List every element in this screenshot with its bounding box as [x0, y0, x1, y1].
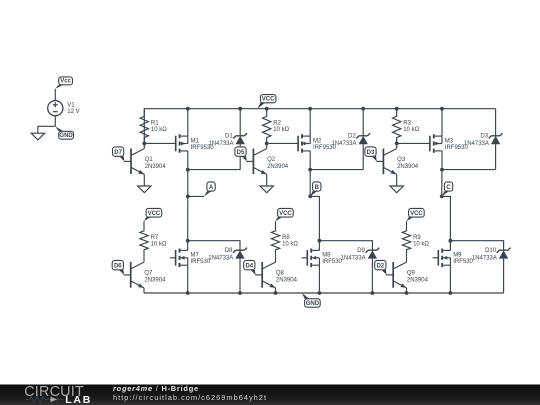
svg-text:12 V: 12 V — [67, 109, 79, 115]
wire M2 drain to D2 anode — [310, 169, 363, 171]
svg-text:M1: M1 — [191, 138, 200, 144]
svg-text:Vcc: Vcc — [60, 79, 71, 85]
power flag Vcc (V1) — [55, 77, 72, 89]
resistor R1 10 k — [140, 109, 167, 144]
wire M8 drain — [318, 241, 320, 251]
svg-text:B: B — [315, 185, 320, 191]
svg-text:R3: R3 — [403, 121, 411, 127]
svg-text:R1: R1 — [151, 121, 159, 127]
mosfet M8 IRF530 — [307, 249, 342, 268]
svg-text:D3: D3 — [480, 133, 488, 139]
svg-text:Q3: Q3 — [397, 157, 406, 163]
svg-text:10 kΩ: 10 kΩ — [413, 242, 429, 248]
node M2 drain junction — [308, 168, 312, 172]
svg-text:Q9: Q9 — [407, 270, 416, 276]
footer title text — [113, 384, 267, 402]
node rail-M2 — [308, 107, 312, 111]
wire M8 gate stub — [302, 257, 308, 259]
wire VCC top rail — [144, 109, 495, 144]
mosfet M7 IRF530 — [176, 249, 211, 268]
mosfet M9 IRF530 — [438, 249, 473, 268]
wire M9 source to rail — [449, 265, 451, 293]
node M8 drain junction — [318, 239, 322, 243]
node rail-Q9 — [405, 291, 409, 295]
transistor Q3 2N3904 — [376, 143, 418, 174]
node C — [442, 182, 453, 197]
transistor Q9 2N3904 — [386, 257, 428, 288]
node rail-M8 — [318, 291, 322, 295]
wire M7 gate stub — [170, 257, 176, 259]
node D4 — [244, 260, 256, 275]
zener diode D10 1N4733A — [472, 248, 511, 262]
node M9 drain junction — [449, 239, 453, 243]
node R2/Q2/M2 gate — [265, 142, 269, 146]
wire D3 anode — [495, 144, 497, 169]
ground (Q1) — [138, 186, 151, 193]
svg-text:10 kΩ: 10 kΩ — [273, 127, 289, 133]
wire M9 gate stub — [433, 257, 439, 259]
svg-text:Q8: Q8 — [276, 270, 285, 276]
node rail-M9 — [449, 291, 453, 295]
node D6 — [112, 260, 124, 275]
power flag VCC (R9) — [407, 208, 425, 221]
wire M1 drain to D1 anode — [188, 169, 240, 171]
node rail-M3 — [440, 107, 444, 111]
svg-text:D1: D1 — [225, 133, 233, 139]
svg-text:R9: R9 — [413, 235, 421, 241]
wire M2 drain down — [309, 151, 311, 170]
svg-text:D7: D7 — [114, 150, 122, 156]
wire V1 minus to GND node — [54, 116, 56, 127]
svg-text:1N4733A: 1N4733A — [472, 256, 497, 262]
transistor Q7 2N3904 — [124, 257, 166, 288]
wire gate M3 — [397, 142, 430, 144]
transistor Q2 2N3904 — [246, 143, 288, 174]
svg-text:M8: M8 — [322, 253, 331, 259]
power flag GND (V1) — [55, 126, 73, 139]
power flag VCC (R7) — [144, 208, 162, 221]
svg-text:http://circuitlab.com/c6269mb6: http://circuitlab.com/c6269mb64yh2t — [113, 393, 267, 402]
svg-text:D4: D4 — [245, 264, 253, 270]
svg-text:10 kΩ: 10 kΩ — [151, 242, 167, 248]
svg-text:IRF530: IRF530 — [322, 259, 342, 265]
svg-text:VCC: VCC — [262, 97, 275, 103]
svg-text:D8: D8 — [225, 248, 233, 254]
node B junction — [308, 195, 312, 199]
node rail-D9 — [371, 291, 375, 295]
node A — [204, 182, 215, 197]
wire M7 source to rail — [187, 265, 189, 293]
node rail-M7 — [186, 291, 190, 295]
svg-text:10 kΩ: 10 kΩ — [282, 242, 298, 248]
svg-text:A: A — [209, 185, 214, 191]
resistor R7 10 k — [140, 221, 167, 257]
node D3 — [365, 147, 377, 162]
zener diode D3 1N4733A — [464, 133, 503, 147]
node rail-D1 — [238, 107, 242, 111]
node rail-D2 — [361, 107, 365, 111]
svg-text:R8: R8 — [282, 235, 290, 241]
mosfet M2 IRF9530 — [298, 134, 337, 153]
wire D1 cathode — [239, 109, 241, 136]
svg-text:GND: GND — [59, 133, 73, 139]
node M7 drain junction — [186, 239, 190, 243]
wire D2 anode — [362, 144, 364, 169]
wire D8 anode — [239, 259, 241, 293]
wire M8 source to rail — [318, 265, 320, 293]
wire M7 drain — [187, 241, 189, 251]
svg-text:M3: M3 — [445, 138, 454, 144]
wire Q2 emitter to ground — [266, 174, 268, 186]
wire D8 cathode wire — [188, 241, 240, 251]
wire M3 drain to node C — [441, 170, 443, 197]
resistor R3 10 k — [393, 109, 420, 144]
wire D3 cathode — [495, 109, 497, 136]
node rail-R2 — [265, 107, 269, 111]
wire node B to M8 drain — [310, 196, 319, 240]
node A junction — [186, 195, 190, 199]
wire D9 anode — [371, 259, 373, 293]
zener diode D9 1N4733A — [341, 248, 380, 262]
svg-text:VCC: VCC — [279, 211, 292, 217]
wire Q1 emitter to ground — [143, 174, 145, 186]
svg-text:M9: M9 — [453, 253, 462, 259]
svg-text:2N3904: 2N3904 — [397, 164, 419, 170]
svg-text:V1: V1 — [67, 103, 75, 109]
transistor Q1 2N3904 — [124, 143, 166, 174]
ground (V1) — [31, 133, 44, 140]
wire M1 drain down — [187, 151, 189, 170]
wire M2 drain to node B — [309, 170, 311, 197]
mosfet M1 IRF9530 — [176, 134, 215, 153]
wire D10 cathode wire — [450, 241, 503, 251]
power flag VCC (R8) — [276, 208, 294, 221]
node M1 drain junction — [186, 168, 190, 172]
wire rail to M2 source — [309, 109, 311, 136]
svg-text:D6: D6 — [114, 264, 122, 270]
svg-text:R7: R7 — [151, 235, 159, 241]
svg-text:LAB: LAB — [65, 394, 92, 405]
svg-text:VCC: VCC — [148, 211, 161, 217]
wire M1 drain to node A — [187, 170, 189, 197]
ground (Q3) — [390, 186, 403, 193]
node M3 drain junction — [440, 168, 444, 172]
wire D10 anode — [503, 259, 505, 293]
svg-text:R2: R2 — [273, 121, 281, 127]
wire Q3 emitter to ground — [396, 174, 398, 186]
wire node A to M7 drain — [187, 196, 189, 240]
wire M3 drain to D3 anode — [442, 169, 496, 171]
node D2 — [375, 260, 387, 275]
wire rail to M1 source — [187, 109, 189, 136]
svg-text:IRF530: IRF530 — [453, 259, 473, 265]
voltage source V1 12 V — [48, 101, 80, 116]
svg-text:D10: D10 — [485, 248, 497, 254]
svg-text:Q7: Q7 — [144, 270, 153, 276]
svg-text:M7: M7 — [191, 253, 200, 259]
svg-text:1N4733A: 1N4733A — [464, 141, 489, 147]
wire Q8 emitter to rail — [275, 288, 277, 293]
svg-text:D3: D3 — [367, 150, 375, 156]
node D7 — [113, 147, 125, 162]
wire D2 cathode — [362, 109, 364, 136]
wire GND bottom rail — [144, 292, 504, 294]
wire Q9 emitter to rail — [406, 288, 408, 293]
resistor R8 10 k — [271, 221, 298, 257]
wire GND node to ground — [38, 126, 55, 133]
node rail-R3 — [395, 107, 399, 111]
svg-text:Q1: Q1 — [145, 157, 154, 163]
svg-text:D2: D2 — [348, 133, 356, 139]
svg-text:GND: GND — [306, 301, 320, 307]
svg-text:2N3904: 2N3904 — [145, 164, 167, 170]
svg-text:1N4733A: 1N4733A — [341, 256, 366, 262]
footer bar — [0, 385, 540, 405]
node rail-M1 — [186, 107, 190, 111]
wire node C to M9 drain — [442, 196, 451, 240]
zener diode D1 1N4733A — [208, 133, 247, 147]
svg-text:D2: D2 — [376, 264, 384, 270]
transistor Q8 2N3904 — [255, 257, 297, 288]
svg-text:2N3904: 2N3904 — [267, 164, 289, 170]
node B — [310, 182, 321, 197]
svg-text:10 kΩ: 10 kΩ — [151, 127, 167, 133]
svg-text:D9: D9 — [357, 248, 365, 254]
svg-text:roger4me / H-Bridge: roger4me / H-Bridge — [113, 384, 199, 393]
zener diode D2 1N4733A — [331, 133, 370, 147]
svg-text:1N4733A: 1N4733A — [208, 141, 233, 147]
wire D1 anode — [239, 144, 241, 169]
svg-text:VCC: VCC — [410, 211, 423, 217]
svg-text:2N3904: 2N3904 — [144, 278, 166, 284]
node rail-Q8 — [274, 291, 278, 295]
svg-text:M2: M2 — [313, 138, 322, 144]
node D5 — [235, 147, 247, 162]
power flag GND (bottom rail) — [302, 293, 320, 307]
mosfet M3 IRF9530 — [430, 134, 469, 153]
svg-text:10 kΩ: 10 kΩ — [403, 127, 419, 133]
zener diode D8 1N4733A — [208, 248, 247, 262]
wire Vcc to V1 — [54, 89, 56, 101]
resistor R2 10 k — [263, 109, 290, 144]
CircuitLab logo — [24, 384, 92, 405]
wire gate M1 — [144, 142, 175, 144]
svg-text:1N4733A: 1N4733A — [331, 141, 356, 147]
power flag VCC (top rail) — [257, 95, 276, 109]
node R1/Q1/M1 gate — [142, 142, 146, 146]
svg-text:C: C — [446, 185, 451, 191]
svg-text:D5: D5 — [237, 150, 245, 156]
ground (Q2) — [260, 186, 273, 193]
svg-text:1N4733A: 1N4733A — [208, 256, 233, 262]
node C junction — [440, 195, 444, 199]
node rail-D8 — [238, 291, 242, 295]
wire M3 drain down — [441, 151, 443, 170]
wire M9 drain — [449, 241, 451, 251]
wire node A stub — [188, 195, 204, 197]
resistor R9 10 k — [402, 221, 429, 257]
svg-text:2N3904: 2N3904 — [407, 278, 429, 284]
svg-text:2N3904: 2N3904 — [276, 278, 298, 284]
wire rail to M3 source — [441, 109, 443, 136]
wire Q7 emitter to rail — [143, 288, 145, 293]
node R3/Q3/M3 gate — [395, 142, 399, 146]
svg-text:Q2: Q2 — [267, 157, 276, 163]
wire D9 cathode wire — [319, 241, 372, 251]
wire gate M2 — [267, 142, 298, 144]
